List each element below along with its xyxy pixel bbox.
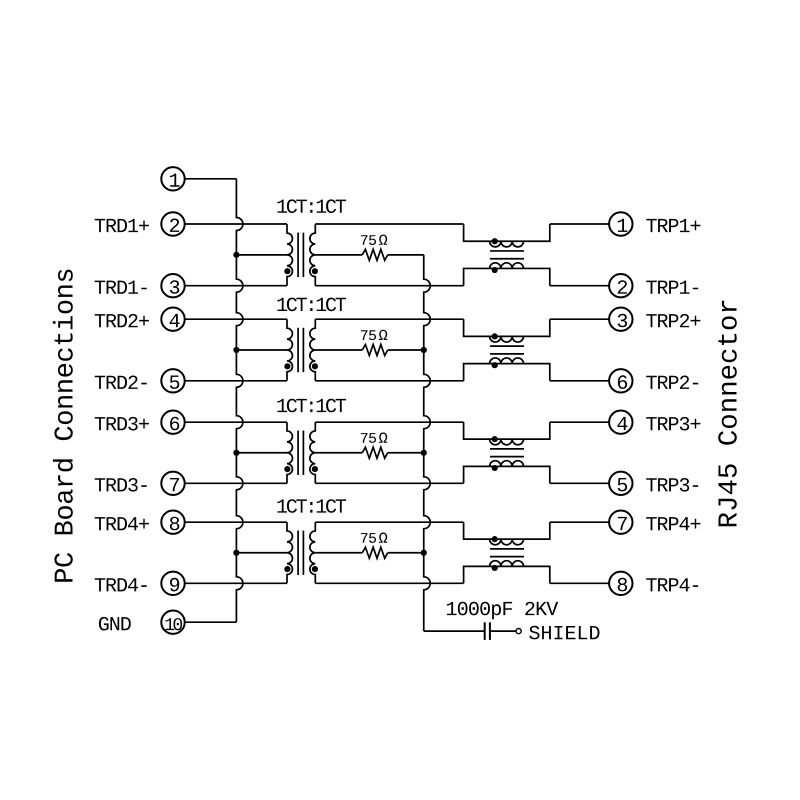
wire choke L4 to RJ45 pin row 4 bottom (550, 582, 609, 584)
resistor R3 75 ohm (362, 447, 387, 458)
wire bus to T4 primary center tap (236, 552, 287, 554)
pin label TRD4+ (95, 517, 149, 530)
resistor R4 value label 75 ohm (361, 533, 376, 543)
wire bus to T3 primary center tap (236, 452, 287, 454)
wire choke L1 to RJ45 pin row 1 top (550, 223, 609, 225)
pin label TRP4+ (646, 517, 700, 530)
wire resistor R1 to shield bus (388, 254, 424, 256)
resistor R3 value label 75 ohm (361, 433, 376, 443)
wire T1 secondary bottom to choke L1 (315, 285, 463, 287)
wire T2 secondary top to choke L2 (315, 318, 463, 320)
pin 8 (PC board side) (161, 511, 184, 534)
wire resistor R3 to shield bus (388, 452, 424, 454)
pin label TRD1- (95, 281, 147, 294)
pin label TRP4- (646, 578, 698, 591)
pin 2 (RJ45 side) (609, 274, 632, 297)
wire bus to T2 primary center tap (236, 349, 287, 351)
node label SHIELD (529, 626, 599, 640)
wire pin to T4 primary bottom (185, 582, 287, 584)
pin 1 (PC board side) (161, 167, 184, 190)
transformer T1 (284, 224, 318, 286)
wire T3 secondary top to choke L3 (315, 421, 463, 423)
pin 1 (RJ45 side) (609, 212, 632, 235)
resistor R2 value label 75 ohm (361, 330, 376, 340)
common-mode choke L2 (464, 319, 550, 381)
wire pin to T2 primary bottom (185, 380, 287, 382)
junction dot shield bus channel 2 (421, 347, 427, 353)
pin 10 (PC board side) (161, 611, 184, 634)
pin 5 (RJ45 side) (609, 472, 632, 495)
wire choke L2 to RJ45 pin row 2 bottom (550, 380, 609, 382)
pin 7 (RJ45 side) (609, 511, 632, 534)
capacitor C1 value label 1000pF 2KV (447, 602, 558, 620)
junction dot center-tap bus channel 2 (233, 347, 239, 353)
title PC Board Connections (53, 270, 73, 582)
pin 4 (RJ45 side) (609, 411, 632, 434)
center-tap bus (pin1/GND vertical) with wire jumps (236, 179, 243, 622)
pin label TRD2+ (95, 314, 149, 327)
transformer T3 ratio label 1CT:1CT (277, 399, 346, 413)
capacitor C1 1000pF 2KV (485, 622, 490, 640)
junction dot center-tap bus channel 1 (233, 252, 239, 258)
wire choke L4 to RJ45 pin row 4 top (550, 521, 609, 523)
title RJ45 Connector (718, 301, 737, 527)
wire T2 secondary bottom to choke L2 (315, 380, 463, 382)
wire T1 secondary top to choke L1 (315, 223, 463, 225)
junction dot center-tap bus channel 3 (233, 450, 239, 456)
wire pin to T1 primary top (185, 223, 287, 225)
pin 8 (RJ45 side) (609, 572, 632, 595)
common-mode choke L3 (464, 422, 550, 483)
shield terminal (open circle) (516, 629, 521, 634)
wire pin 1 to center-tap bus (185, 178, 237, 180)
common-mode choke L1 (464, 224, 550, 286)
transformer T4 (284, 522, 318, 583)
transformer T2 (284, 319, 318, 381)
wire pin to T1 primary bottom (185, 285, 287, 287)
resistor R1 75 ohm (362, 249, 387, 260)
wire T4 secondary center tap to resistor R4 (315, 552, 362, 554)
wire choke L2 to RJ45 pin row 2 top (550, 318, 609, 320)
wire pin to T3 primary bottom (185, 482, 287, 484)
wire pin to T2 primary top (185, 318, 287, 320)
pin 3 (RJ45 side) (609, 308, 632, 331)
pin label TRD3- (95, 478, 147, 492)
junction dot shield bus channel 4 (421, 550, 427, 556)
transformer T3 (284, 422, 318, 483)
wire T2 secondary center tap to resistor R2 (315, 349, 362, 351)
shield bus (resistor common) with wire jumps (424, 255, 431, 631)
wire T1 secondary center tap to resistor R1 (315, 254, 362, 256)
transformer T4 ratio label 1CT:1CT (277, 499, 346, 513)
wire T4 secondary top to choke L4 (315, 521, 463, 523)
pin label GND (99, 617, 131, 631)
pin 7 (PC board side) (161, 472, 184, 495)
pin 6 (RJ45 side) (609, 369, 632, 392)
pin label TRD4- (95, 578, 147, 591)
pin 4 (PC board side) (161, 308, 184, 331)
pin label TRD3+ (95, 417, 149, 431)
pin label TRD1+ (95, 219, 149, 232)
pin 6 (PC board side) (161, 411, 184, 434)
wire shield bus to capacitor C1 (424, 630, 485, 632)
pin label TRP2+ (646, 314, 700, 327)
transformer T1 ratio label 1CT:1CT (277, 199, 346, 213)
pin label TRP3- (646, 478, 698, 492)
wire resistor R2 to shield bus (388, 349, 424, 351)
junction dot shield bus channel 3 (421, 450, 427, 456)
wire choke L3 to RJ45 pin row 3 bottom (550, 482, 609, 484)
resistor R1 value label 75 ohm (361, 235, 376, 245)
resistor R2 75 ohm (362, 345, 387, 356)
wire bus to T1 primary center tap (236, 254, 287, 256)
pin label TRP1- (646, 281, 698, 294)
pin label TRP1+ (646, 219, 700, 232)
pin label TRP2- (646, 376, 698, 389)
wire choke L1 to RJ45 pin row 1 bottom (550, 285, 609, 287)
junction dot center-tap bus channel 4 (233, 550, 239, 556)
pin 3 (PC board side) (161, 274, 184, 297)
pin label TRP3+ (646, 417, 700, 431)
pin 9 (PC board side) (161, 572, 184, 595)
wire GND pin 10 to center-tap bus (185, 621, 237, 623)
wire pin to T4 primary top (185, 521, 287, 523)
wire T3 secondary center tap to resistor R3 (315, 452, 362, 454)
pin label TRD2- (95, 376, 147, 389)
common-mode choke L4 (464, 522, 550, 583)
wire pin to T3 primary top (185, 421, 287, 423)
wire T3 secondary bottom to choke L3 (315, 482, 463, 484)
wire capacitor C1 to shield terminal (490, 630, 516, 632)
pin 2 (PC board side) (161, 212, 184, 235)
transformer T2 ratio label 1CT:1CT (277, 298, 346, 312)
wire T4 secondary bottom to choke L4 (315, 582, 463, 584)
wire choke L3 to RJ45 pin row 3 top (550, 421, 609, 423)
pin 5 (PC board side) (161, 369, 184, 392)
wire resistor R4 to shield bus (388, 552, 424, 554)
resistor R4 75 ohm (362, 547, 387, 558)
